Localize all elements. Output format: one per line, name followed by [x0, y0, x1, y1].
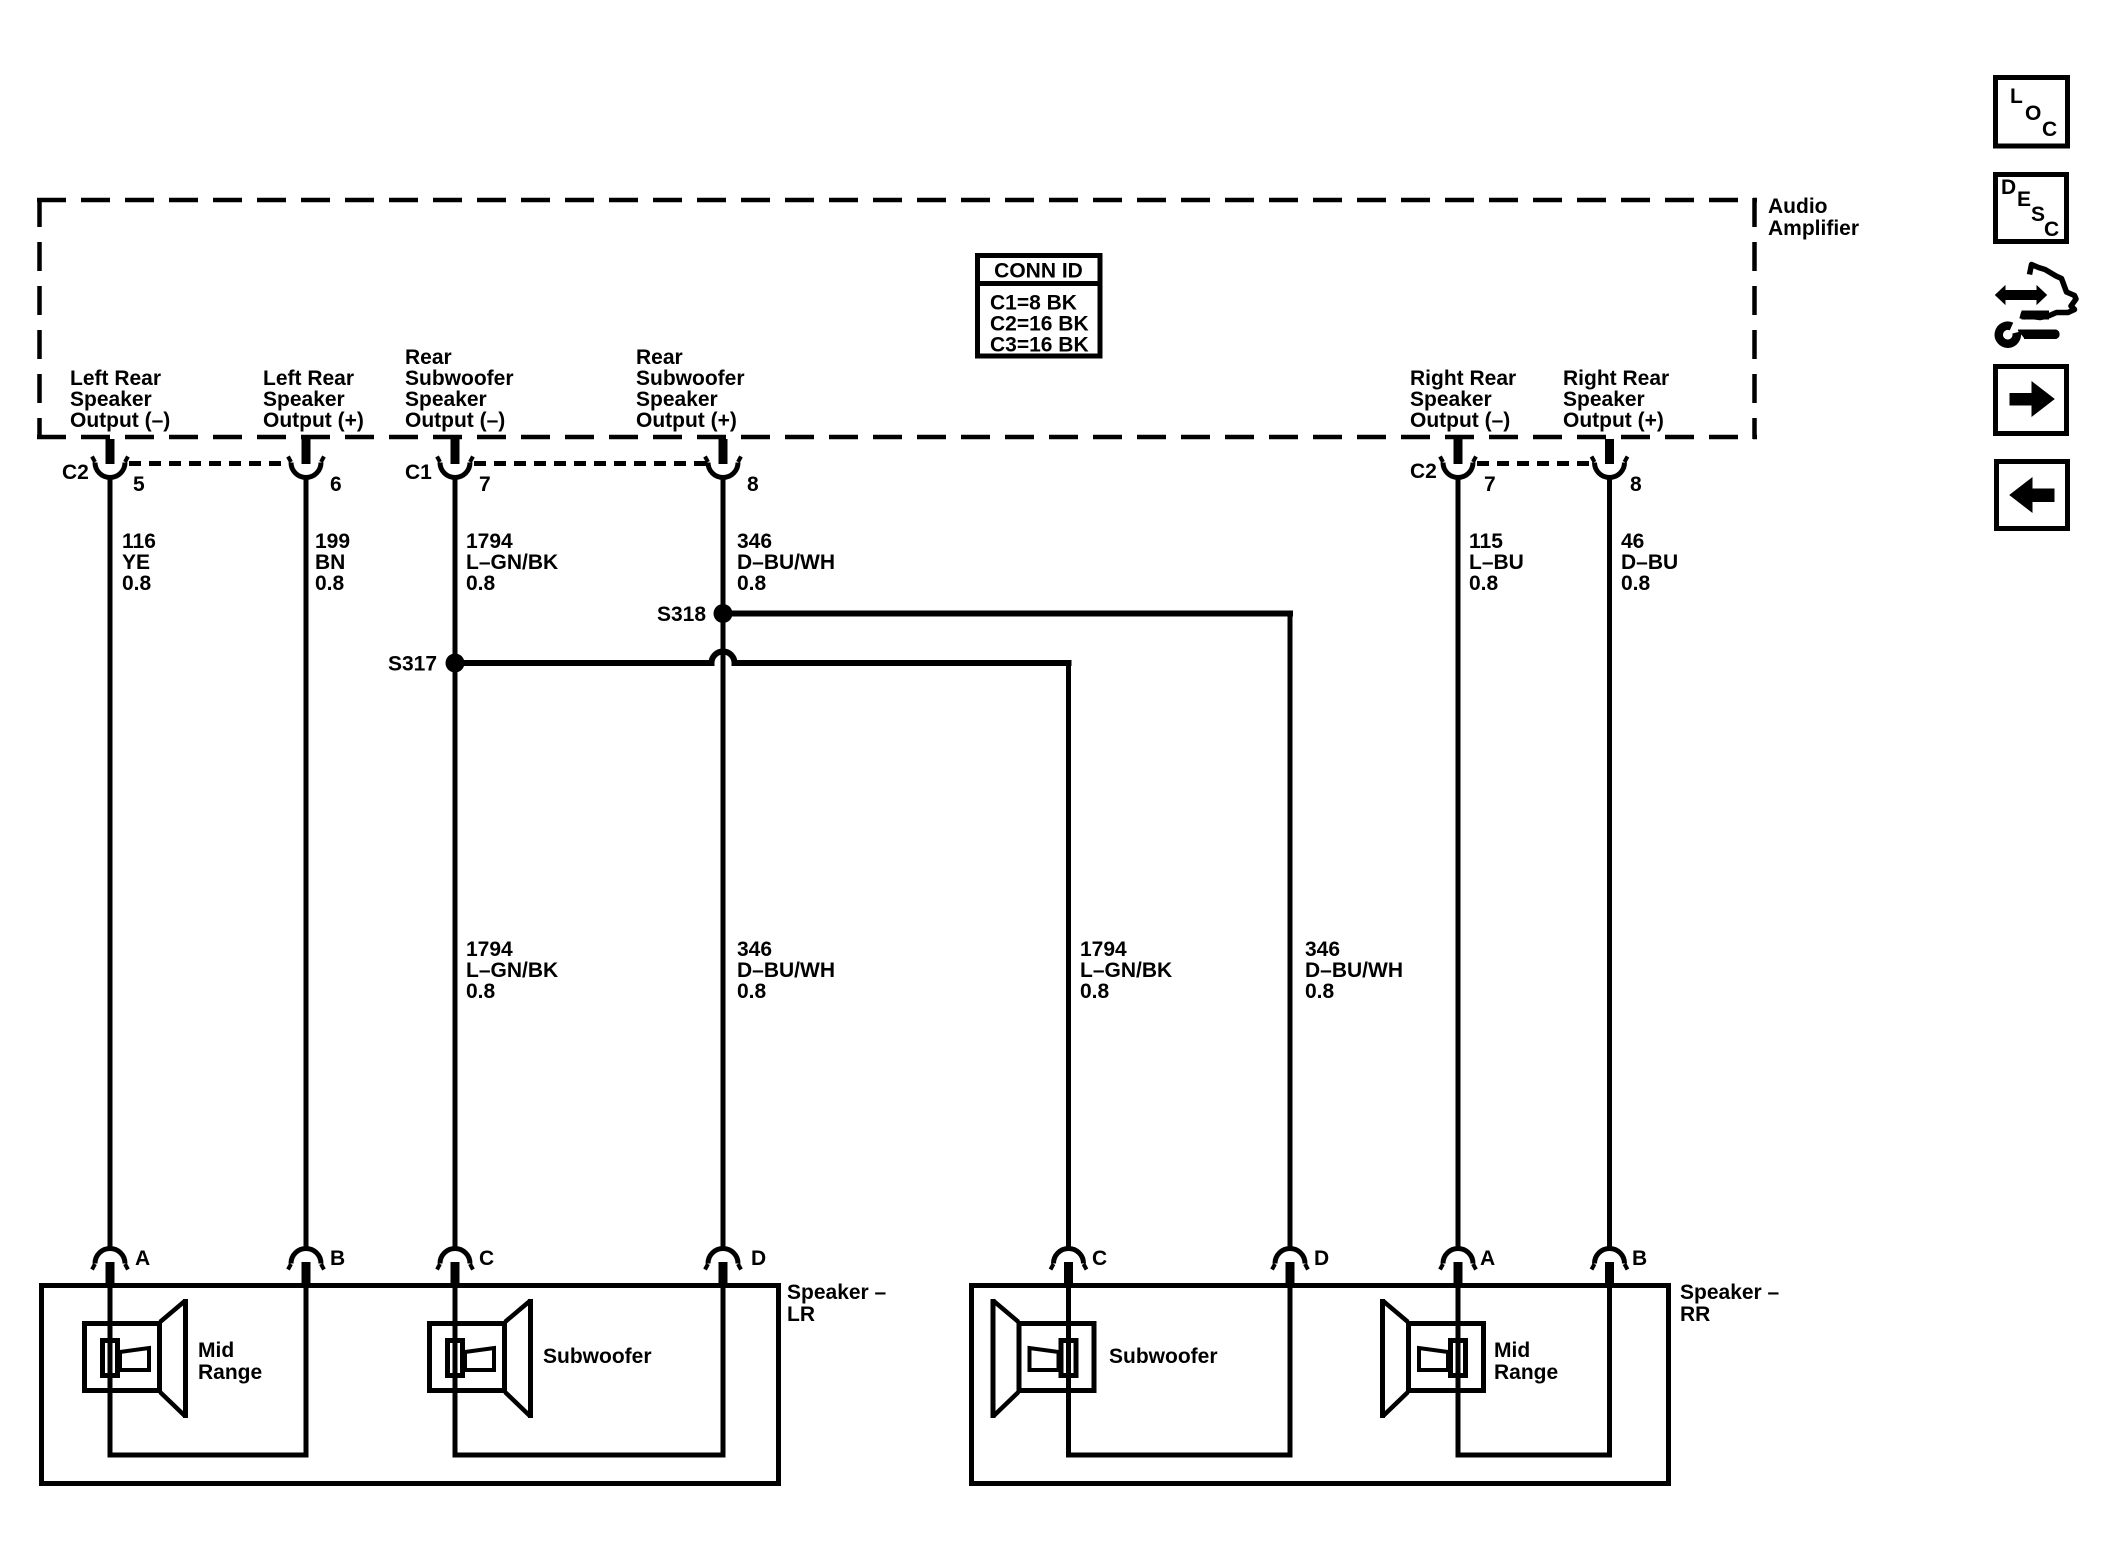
svg-text:8: 8: [747, 473, 759, 496]
speaker LR pin C: [437, 1249, 473, 1286]
svg-text:CONN ID: CONN ID: [994, 260, 1083, 283]
svg-text:Subwoofer: Subwoofer: [636, 367, 745, 390]
svg-text:C: C: [1092, 1247, 1107, 1270]
pin number 5: [133, 473, 145, 496]
svg-text:199: 199: [315, 530, 350, 553]
svg-text:346: 346: [737, 530, 772, 553]
svg-text:0.8: 0.8: [737, 980, 767, 1003]
svg-text:346: 346: [1305, 938, 1340, 961]
svg-text:D–BU/WH: D–BU/WH: [737, 551, 835, 574]
connector body dashes C2 right: [1477, 461, 1592, 466]
wire label 115 L-BU 0.8: [1469, 530, 1524, 595]
svg-text:7: 7: [479, 473, 491, 496]
svg-text:C: C: [2044, 218, 2059, 241]
svg-text:C2: C2: [1410, 460, 1437, 483]
svg-text:46: 46: [1621, 530, 1644, 553]
svg-text:D: D: [2001, 176, 2016, 199]
svg-text:0.8: 0.8: [466, 572, 496, 595]
subwoofer label RR: [1109, 1345, 1218, 1368]
CONN ID table: [975, 256, 1103, 357]
svg-text:Output (+): Output (+): [1563, 409, 1664, 432]
wire S318 branch horizontal: [723, 611, 1293, 617]
svg-text:0.8: 0.8: [315, 572, 345, 595]
pin number 7 right: [1484, 473, 1496, 496]
svg-text:Speaker: Speaker: [405, 388, 487, 411]
pin letter D: [751, 1247, 766, 1270]
connector C2 pin 6: [288, 439, 324, 478]
svg-text:A: A: [135, 1247, 150, 1270]
wire 1794 L-GN/BK branch (S317 to speaker RR C): [1066, 663, 1071, 1251]
svg-text:C1: C1: [405, 461, 432, 484]
svg-text:8: 8: [1630, 473, 1642, 496]
svg-text:Speaker: Speaker: [1563, 388, 1645, 411]
left arrow icon: [1997, 462, 2068, 529]
svg-text:Output (+): Output (+): [263, 409, 364, 432]
svg-text:Amplifier: Amplifier: [1768, 217, 1859, 240]
connector C2 (right) pin 7: [1440, 439, 1476, 478]
svg-text:0.8: 0.8: [122, 572, 152, 595]
pin letter A right: [1480, 1247, 1495, 1270]
svg-text:E: E: [2017, 188, 2031, 211]
connector name C2: [62, 461, 89, 484]
pin letter B right: [1632, 1247, 1647, 1270]
svg-text:YE: YE: [122, 551, 150, 574]
harness repair icon: [1996, 265, 2077, 344]
pin letter C: [479, 1247, 494, 1270]
svg-text:S318: S318: [657, 603, 706, 626]
wire 116 YE (pin5 to speaker LR A): [108, 477, 113, 1251]
svg-text:Left Rear: Left Rear: [263, 367, 354, 390]
wire loop C-D inside speaker LR: [455, 1283, 723, 1455]
connector body dashes C2 left: [129, 461, 289, 466]
subwoofer label LR: [543, 1345, 652, 1368]
speaker LR pin B: [288, 1249, 324, 1286]
svg-text:Speaker: Speaker: [636, 388, 718, 411]
wire 346 D-BU/WH (pin8 to S318 to speaker LR D): [721, 477, 726, 1251]
speaker RR pin A: [1440, 1249, 1476, 1286]
speaker RR box: [972, 1286, 1669, 1484]
svg-text:Subwoofer: Subwoofer: [405, 367, 514, 390]
speaker LR pin D: [705, 1249, 741, 1286]
svg-text:6: 6: [330, 473, 342, 496]
svg-text:L–GN/BK: L–GN/BK: [466, 959, 558, 982]
svg-text:Output (–): Output (–): [70, 409, 170, 432]
pin letter D right: [1314, 1247, 1329, 1270]
svg-text:0.8: 0.8: [1469, 572, 1499, 595]
svg-text:LR: LR: [787, 1303, 815, 1326]
svg-text:S: S: [2031, 203, 2045, 226]
svg-text:0.8: 0.8: [1080, 980, 1110, 1003]
svg-text:Range: Range: [198, 1361, 262, 1384]
label: Right Rear Speaker Output (-): [1410, 367, 1516, 432]
svg-text:Speaker –: Speaker –: [787, 1281, 887, 1304]
svg-text:L: L: [2010, 85, 2023, 108]
svg-text:Speaker: Speaker: [263, 388, 345, 411]
wire label 46 D-BU 0.8: [1621, 530, 1678, 595]
wire label 199 BN 0.8: [315, 530, 350, 595]
speaker LR box: [42, 1286, 779, 1484]
svg-text:RR: RR: [1680, 1303, 1710, 1326]
connector name C2 right: [1410, 460, 1437, 483]
mid range speaker symbol RR: [1383, 1299, 1484, 1418]
svg-text:Right Rear: Right Rear: [1410, 367, 1516, 390]
svg-text:Mid: Mid: [1494, 1339, 1530, 1362]
svg-text:L–BU: L–BU: [1469, 551, 1524, 574]
label: Right Rear Speaker Output (+): [1563, 367, 1669, 432]
label: Rear Subwoofer Speaker Output (+): [636, 346, 745, 432]
svg-text:B: B: [330, 1247, 345, 1270]
subwoofer speaker symbol LR: [430, 1299, 531, 1418]
pin letter B: [330, 1247, 345, 1270]
right arrow icon: [1996, 367, 2067, 434]
audio amplifier dashed box U1: [37, 198, 1757, 439]
svg-text:Rear: Rear: [405, 346, 452, 369]
svg-text:346: 346: [737, 938, 772, 961]
svg-text:Audio: Audio: [1768, 195, 1827, 218]
svg-text:Mid: Mid: [198, 1339, 234, 1362]
svg-text:B: B: [1632, 1247, 1647, 1270]
svg-text:Right Rear: Right Rear: [1563, 367, 1669, 390]
audio amplifier label: [1768, 195, 1859, 240]
pin number 8 right: [1630, 473, 1642, 496]
pin number 6: [330, 473, 342, 496]
wire label 1794 L-GN/BK 0.8 (left lower): [466, 938, 558, 1003]
svg-text:L–GN/BK: L–GN/BK: [466, 551, 558, 574]
svg-text:1794: 1794: [1080, 938, 1127, 961]
svg-text:115: 115: [1469, 530, 1503, 553]
svg-text:Range: Range: [1494, 1361, 1558, 1384]
svg-text:Subwoofer: Subwoofer: [1109, 1345, 1218, 1368]
wire 346 D-BU/WH branch (S318 to speaker RR D): [1288, 614, 1293, 1252]
wire loop A-B inside speaker RR: [1458, 1283, 1610, 1455]
svg-text:D: D: [1314, 1247, 1329, 1270]
mid range label RR: [1494, 1339, 1558, 1384]
svg-text:Output (–): Output (–): [1410, 409, 1510, 432]
subwoofer speaker symbol RR: [993, 1299, 1094, 1418]
speaker RR pin D: [1272, 1249, 1308, 1286]
svg-text:O: O: [2025, 102, 2041, 125]
label: Left Rear Speaker Output (+): [263, 367, 364, 432]
svg-text:116: 116: [122, 530, 156, 553]
svg-text:0.8: 0.8: [737, 572, 767, 595]
svg-text:D–BU/WH: D–BU/WH: [737, 959, 835, 982]
connector body dashes C1: [474, 461, 706, 466]
svg-text:1794: 1794: [466, 530, 513, 553]
svg-text:D–BU: D–BU: [1621, 551, 1678, 574]
svg-text:0.8: 0.8: [466, 980, 496, 1003]
svg-text:Left Rear: Left Rear: [70, 367, 161, 390]
label: Left Rear Speaker Output (-): [70, 367, 170, 432]
svg-text:BN: BN: [315, 551, 345, 574]
wire label 346 D-BU/WH 0.8 (upper): [737, 530, 835, 595]
svg-text:7: 7: [1484, 473, 1496, 496]
pin number 8: [747, 473, 759, 496]
svg-text:C2: C2: [62, 461, 89, 484]
speaker LR label: [787, 1281, 887, 1326]
svg-text:A: A: [1480, 1247, 1495, 1270]
wire label 346 D-BU/WH 0.8 (left lower): [737, 938, 835, 1003]
wire loop C-D inside speaker RR: [1069, 1283, 1291, 1455]
wire label 116 YE 0.8: [122, 530, 156, 595]
speaker RR label: [1680, 1281, 1780, 1326]
svg-text:C2=16 BK: C2=16 BK: [990, 313, 1089, 336]
svg-text:0.8: 0.8: [1621, 572, 1651, 595]
pin letter A: [135, 1247, 150, 1270]
svg-text:Subwoofer: Subwoofer: [543, 1345, 652, 1368]
speaker RR pin C: [1051, 1249, 1087, 1286]
wire 115 L-BU (right pin7 to speaker RR A): [1456, 477, 1461, 1251]
wire label 1794 L-GN/BK 0.8 (upper): [466, 530, 558, 595]
svg-text:C3=16 BK: C3=16 BK: [990, 334, 1089, 357]
svg-text:Output (+): Output (+): [636, 409, 737, 432]
speaker LR pin A: [92, 1249, 128, 1286]
svg-text:Speaker –: Speaker –: [1680, 1281, 1780, 1304]
DESC icon box: [1996, 175, 2067, 242]
wire label 1794 L-GN/BK 0.8 (right lower): [1080, 938, 1172, 1003]
svg-text:Output (–): Output (–): [405, 409, 505, 432]
wire loop A-B inside speaker LR: [110, 1283, 306, 1455]
svg-text:C: C: [2042, 118, 2057, 141]
connector name C1: [405, 461, 432, 484]
splice S318: [657, 603, 733, 626]
svg-text:S317: S317: [388, 653, 437, 676]
pin number 7: [479, 473, 491, 496]
connector C1 pin 7: [437, 439, 473, 478]
svg-text:1794: 1794: [466, 938, 513, 961]
connector C1 pin 8: [705, 439, 741, 478]
mid range label LR: [198, 1339, 262, 1384]
LOC icon box: [1996, 78, 2068, 147]
svg-text:Speaker: Speaker: [1410, 388, 1492, 411]
svg-text:D: D: [751, 1247, 766, 1270]
splice S317: [388, 653, 465, 676]
wire 199 BN (pin6 to speaker LR B): [304, 477, 309, 1251]
label: Rear Subwoofer Speaker Output (-): [405, 346, 514, 432]
mid range speaker symbol LR: [85, 1299, 186, 1418]
svg-text:C: C: [479, 1247, 494, 1270]
svg-text:C1=8 BK: C1=8 BK: [990, 292, 1077, 315]
wire 1794 L-GN/BK (pin7 to S317 to speaker LR C): [453, 477, 458, 1251]
svg-text:0.8: 0.8: [1305, 980, 1335, 1003]
svg-text:L–GN/BK: L–GN/BK: [1080, 959, 1172, 982]
svg-text:D–BU/WH: D–BU/WH: [1305, 959, 1403, 982]
svg-text:Rear: Rear: [636, 346, 683, 369]
wire label 346 D-BU/WH 0.8 (right lower): [1305, 938, 1403, 1003]
wire 46 D-BU (right pin8 to speaker RR B): [1607, 477, 1612, 1251]
connector C2 pin 5: [92, 439, 128, 478]
speaker RR pin B: [1592, 1249, 1628, 1286]
svg-text:Speaker: Speaker: [70, 388, 152, 411]
wire S317 branch horizontal with hop over wire 346: [455, 652, 1072, 664]
svg-text:5: 5: [133, 473, 145, 496]
connector C2 (right) pin 8: [1592, 439, 1628, 478]
pin letter C right: [1092, 1247, 1107, 1270]
